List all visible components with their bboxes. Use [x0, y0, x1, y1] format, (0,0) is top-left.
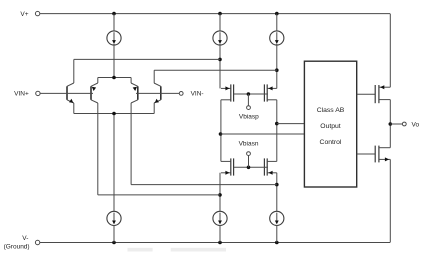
svg-text:(Ground): (Ground) [4, 243, 30, 250]
svg-text:Vbiasn: Vbiasn [239, 141, 259, 148]
svg-text:Output: Output [320, 123, 341, 130]
svg-text:Vo: Vo [412, 121, 420, 128]
svg-text:V+: V+ [20, 11, 28, 18]
svg-text:VIN+: VIN+ [14, 91, 29, 98]
svg-text:V-: V- [22, 235, 28, 242]
svg-text:Vbiasp: Vbiasp [239, 113, 259, 120]
svg-text:Control: Control [320, 139, 342, 146]
svg-text:Class AB: Class AB [317, 107, 345, 114]
svg-text:VIN-: VIN- [191, 91, 204, 98]
